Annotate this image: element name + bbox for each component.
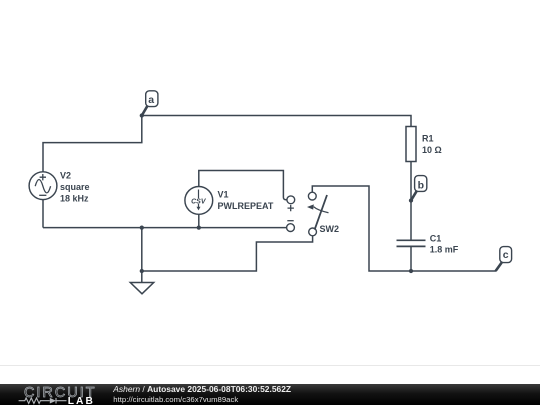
wire node b to C1 top xyxy=(410,201,412,241)
footer bar xyxy=(0,384,540,405)
wire R1 bottom to node b xyxy=(410,162,412,201)
wire SW2 top to C1 bottom rail and node c xyxy=(312,186,496,271)
wire V1 plus branch xyxy=(199,171,287,200)
svg-text:b: b xyxy=(418,179,424,191)
V1 plus polarity mark xyxy=(288,205,294,211)
svg-text:SW2: SW2 xyxy=(320,224,340,234)
CircuitLab logo resistor-diode squiggle xyxy=(19,398,67,404)
svg-text:PWLREPEAT: PWLREPEAT xyxy=(218,201,274,211)
wire V2 bottom to ground rail xyxy=(42,200,44,228)
svg-text:LAB: LAB xyxy=(68,396,93,405)
node b flag xyxy=(411,176,427,201)
resistor R1 xyxy=(406,127,442,162)
wire ground stub xyxy=(141,271,143,283)
wire ground rail upper xyxy=(43,227,287,229)
voltage source V1 xyxy=(185,187,274,215)
junction node a dot xyxy=(140,113,144,117)
wire C1 bottom xyxy=(410,246,412,271)
svg-text:a: a xyxy=(148,94,154,106)
voltage source V2 xyxy=(29,170,89,203)
V1 minus polarity mark xyxy=(287,220,293,222)
svg-text:c: c xyxy=(503,249,509,261)
svg-text:18 kHz: 18 kHz xyxy=(60,193,89,203)
wire node a to R1 top xyxy=(142,116,411,127)
junction dot V1 bottom xyxy=(197,225,201,229)
junction node b dot xyxy=(409,198,413,202)
node c flag xyxy=(496,247,512,271)
junction dot C1 bottom xyxy=(409,269,413,273)
V1 minus terminal xyxy=(287,224,295,232)
svg-text:Ashern / Autosave 2025-06-08T0: Ashern / Autosave 2025-06-08T06:30:52.56… xyxy=(112,384,291,394)
canvas bottom separator line xyxy=(0,365,540,367)
svg-text:V1: V1 xyxy=(218,190,229,200)
node a flag xyxy=(142,91,158,116)
junction dot lower rail xyxy=(140,269,144,273)
svg-text:1.8 mF: 1.8 mF xyxy=(430,244,459,254)
switch SW2 xyxy=(307,192,339,236)
svg-text:square: square xyxy=(60,182,90,192)
V1 plus terminal xyxy=(287,196,295,204)
svg-text:R1: R1 xyxy=(422,133,434,143)
svg-text:C1: C1 xyxy=(430,234,442,244)
capacitor C1 xyxy=(397,234,459,255)
wire node a down-left to V2 top xyxy=(43,116,142,172)
wire lower rail to SW2 bottom xyxy=(142,236,313,271)
svg-text:http://circuitlab.com/c36x7vum: http://circuitlab.com/c36x7vum89ack xyxy=(113,395,238,404)
svg-text:10 Ω: 10 Ω xyxy=(422,145,442,155)
wire ground branch down xyxy=(141,228,143,271)
ground xyxy=(130,283,153,294)
wire V1 bottom stub xyxy=(198,214,200,227)
junction dot ground rail at x142 xyxy=(140,225,144,229)
svg-text:V2: V2 xyxy=(60,170,71,180)
